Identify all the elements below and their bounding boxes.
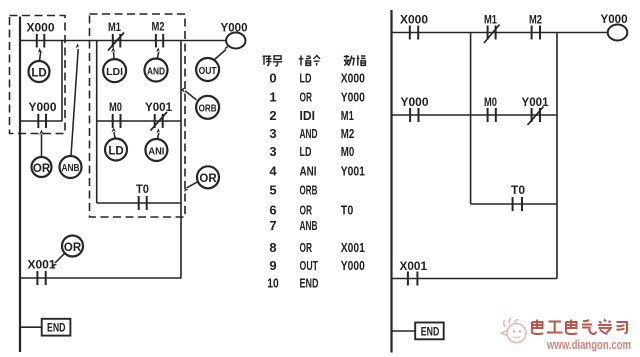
svg-text:M2: M2 — [152, 20, 165, 34]
svg-text:M2: M2 — [341, 126, 355, 141]
END box right — [415, 323, 444, 340]
svg-text:OR: OR — [300, 202, 313, 217]
svg-text:END: END — [421, 326, 440, 338]
svg-text:8: 8 — [269, 240, 276, 255]
svg-text:LD: LD — [300, 70, 312, 85]
wire branch vertical — [61, 41, 63, 122]
svg-text:OUT: OUT — [199, 66, 217, 77]
svg-text:Y001: Y001 — [341, 164, 365, 179]
svg-text:Y000: Y000 — [29, 100, 57, 114]
svg-text:Y000: Y000 — [601, 12, 628, 26]
annotation circle LDI — [103, 59, 126, 82]
arrow LDI to M1 — [111, 47, 116, 58]
arrow OR to X001 — [53, 254, 65, 268]
svg-text:M2: M2 — [529, 13, 542, 27]
contact X000 — [37, 34, 45, 48]
svg-text:www.diangon.com: www.diangon.com — [546, 337, 631, 352]
dashed block box 1 — [10, 16, 66, 134]
svg-text:OR: OR — [33, 163, 51, 175]
arrow ANB to junction wire — [71, 43, 79, 156]
annotation circle LD (X000) — [29, 61, 50, 82]
svg-text:M0: M0 — [484, 95, 497, 109]
wire X001 rung right — [392, 278, 558, 280]
annotation circle OR (X001) — [62, 236, 83, 257]
wire inner left vertical — [96, 41, 98, 204]
annotation circle OUT — [196, 58, 219, 81]
arrow OR to block2 edge — [184, 182, 198, 192]
svg-text:10: 10 — [267, 275, 279, 290]
svg-text:AND: AND — [147, 66, 165, 77]
annotation circle ANB — [60, 156, 82, 178]
svg-text:5: 5 — [269, 183, 276, 198]
svg-text:T0: T0 — [136, 182, 149, 196]
wire END rung right — [392, 330, 416, 332]
annotation circle LD (M0) — [105, 139, 127, 161]
watermark title 电工电气学习 (drawn strokes) — [532, 320, 627, 335]
left power rail — [19, 17, 21, 353]
svg-text:OR: OR — [199, 173, 217, 185]
wire T0 rung right — [471, 203, 557, 205]
svg-text:M1: M1 — [108, 20, 121, 34]
wire vertical branch a — [470, 33, 472, 205]
svg-text:Y000: Y000 — [341, 258, 365, 273]
annotation circle OR (Y000) — [32, 157, 52, 177]
table header 数据 — [344, 55, 366, 66]
wire right rung2 — [392, 114, 558, 116]
svg-text:0: 0 — [269, 70, 276, 85]
wire Y000 branch — [20, 120, 62, 122]
svg-text:X001: X001 — [28, 258, 56, 272]
svg-text:1: 1 — [269, 89, 276, 104]
svg-text:END: END — [47, 323, 66, 335]
arrow LD to M0 — [112, 127, 116, 138]
right power rail — [390, 10, 392, 353]
annotation circle OR (T0) — [197, 166, 219, 188]
svg-text:2: 2 — [269, 108, 276, 123]
svg-text:LDI: LDI — [106, 67, 123, 78]
svg-text:X000: X000 — [341, 70, 365, 85]
svg-text:OR: OR — [300, 240, 313, 255]
svg-text:IDI: IDI — [300, 108, 316, 123]
watermark logo (bird) — [502, 318, 527, 343]
svg-text:ORB: ORB — [199, 104, 217, 115]
svg-text:Y000: Y000 — [401, 95, 429, 109]
svg-text:X001: X001 — [400, 259, 428, 273]
svg-text:3: 3 — [269, 144, 276, 159]
svg-text:AND: AND — [300, 126, 318, 141]
table header 指令 — [299, 56, 320, 66]
wire T0 rung — [97, 202, 181, 204]
wire X001 rung — [20, 277, 181, 279]
svg-text:LD: LD — [108, 145, 123, 157]
END box left — [42, 319, 71, 336]
svg-text:M0: M0 — [109, 100, 122, 114]
svg-text:T0: T0 — [511, 183, 525, 197]
svg-text:ANI: ANI — [300, 164, 317, 179]
annotation circle ANI — [145, 139, 167, 161]
svg-text:4: 4 — [269, 164, 277, 179]
svg-text:ANI: ANI — [148, 146, 164, 157]
svg-text:LD: LD — [300, 144, 312, 159]
svg-text:3: 3 — [269, 126, 276, 141]
svg-text:LD: LD — [31, 67, 46, 79]
wire END rung left — [20, 326, 42, 328]
svg-text:ANB: ANB — [300, 218, 318, 233]
svg-text:9: 9 — [269, 258, 276, 273]
svg-text:M1: M1 — [484, 13, 497, 27]
wire vertical branch b — [556, 33, 558, 279]
svg-text:7: 7 — [269, 218, 276, 233]
svg-text:OR: OR — [64, 242, 82, 254]
svg-text:T0: T0 — [341, 202, 354, 217]
arrow ANI to Y001 — [156, 128, 160, 138]
wire right rung1 — [392, 32, 608, 34]
svg-text:M0: M0 — [341, 144, 355, 159]
annotation circle ORB — [196, 96, 219, 119]
svg-text:Y001: Y001 — [145, 100, 172, 114]
wire rung1 left — [20, 40, 227, 42]
svg-text:6: 6 — [269, 202, 276, 217]
svg-text:M1: M1 — [341, 108, 354, 123]
arrow ORB to block2 edge — [181, 88, 197, 101]
arrow OR to Y000 contact — [39, 130, 44, 157]
dashed block box 2 — [90, 14, 186, 217]
table rows — [267, 70, 365, 290]
arrow AND to M2 — [156, 47, 160, 58]
svg-text:Y000: Y000 — [341, 89, 365, 104]
wire rung2 (M0/Y001) — [97, 120, 181, 122]
annotation circle AND — [145, 59, 168, 82]
arrow OUT to coil — [214, 45, 228, 60]
wire inner right vertical — [180, 41, 182, 279]
svg-text:END: END — [300, 275, 319, 290]
arrow LD to X000 — [38, 48, 41, 61]
svg-text:ANB: ANB — [62, 163, 80, 174]
table header 序号 (drawn strokes) — [263, 56, 283, 66]
svg-text:OR: OR — [300, 89, 313, 104]
svg-text:ORB: ORB — [300, 183, 318, 198]
svg-text:X000: X000 — [27, 21, 55, 35]
svg-text:X001: X001 — [341, 240, 365, 255]
svg-text:X000: X000 — [400, 13, 428, 27]
instruction list table — [263, 55, 366, 290]
svg-text:OUT: OUT — [300, 258, 319, 273]
svg-text:Y001: Y001 — [522, 95, 549, 109]
